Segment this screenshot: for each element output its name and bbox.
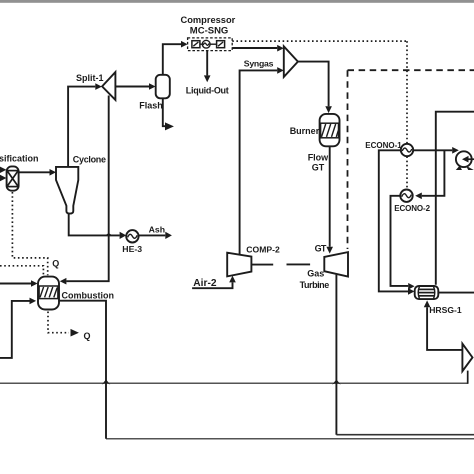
compressor MC-SNG multistage block [188,38,233,51]
heat exchanger ECONO-1 [401,144,413,156]
wire: MC-SNG bottom to Liquid-Out [206,51,208,76]
turbine GT [324,252,348,277]
svg-text:HE-3: HE-3 [122,244,142,254]
wire: dashed battery-limit boundary top [348,69,474,71]
cyclone separator [56,167,78,214]
svg-text:HRSG-1: HRSG-1 [429,305,462,315]
wire: dotted work stream MC-SNG to ECONO (horizontal) [232,40,407,42]
svg-text:sification: sification [0,153,39,163]
wire: ECONO-1 outlet left and down to HRSG [379,150,408,291]
wire: gasifier to cyclone [19,171,50,173]
junction chevron at flue header [332,380,341,385]
wire: combustion flue out right and down [59,301,106,439]
wire: dashed battery-limit boundary left [347,70,349,249]
wire: feed arrow 2 into gasifier [0,175,6,181]
svg-text:Syngas: Syngas [244,59,274,69]
splitter Split-1 [102,72,115,100]
compressor COMP-2 [227,253,251,277]
wire: dotted work stream vertical down to ECONO-1 [406,41,408,144]
svg-text:Flash: Flash [139,101,163,111]
svg-text:Liquid-Out: Liquid-Out [186,85,229,95]
wire: Burner to gas turbine [329,146,331,247]
svg-text:Q: Q [84,331,91,341]
wire: HRSG-1 gas outlet to right edge [438,292,474,294]
svg-text:GT: GT [312,163,325,173]
svg-text:Turbine: Turbine [300,280,330,290]
burner vessel Burner [320,114,340,146]
arrowhead Q out [71,329,79,337]
pump P-1 [456,166,462,170]
wire: flue riser into HRSG-1 bottom [427,307,462,350]
wire: cyclone bottom to HE-3 [69,214,120,236]
svg-text:Compressor: Compressor [181,15,236,25]
wire: dotted Q gasifier to combustion [12,192,47,275]
wire: combustion exhaust bottom line to right edge [106,438,474,440]
svg-text:Combustion: Combustion [62,290,115,300]
wire: stream from left edge into combustion [0,283,31,285]
wire: HE-3 to Ash out [139,234,166,236]
svg-text:ECONO-2: ECONO-2 [394,204,430,213]
svg-text:Flow: Flow [308,153,329,163]
svg-text:MC-SNG: MC-SNG [190,26,229,37]
wire: Flash top to compressor MC-SNG [163,44,181,75]
svg-text:Cyclone: Cyclone [73,154,106,164]
heat exchanger HE-3 [126,230,138,242]
wire: ECONO-1 to pump [413,149,452,151]
junction chevron at flue header left [102,380,111,385]
wire: long flue-gas header line [0,382,468,384]
wire: cyclone top to Split-1 [68,87,95,167]
wire: shaft COMP-2 to GT segment 1 [251,264,274,266]
wire hop over HE-3 line [105,234,112,236]
wire: Flash bottom product [163,98,165,126]
svg-text:Burner: Burner [290,126,320,136]
flash drum Flash [156,75,170,99]
wire: mixer to Burner [298,62,329,107]
wire: compressed air from COMP-2 up to mixer [240,70,278,255]
svg-text:Split-1: Split-1 [76,73,104,83]
svg-text:Q: Q [52,259,59,269]
wire: steam drum line corner to right edge [436,112,474,285]
svg-text:COMP-2: COMP-2 [246,245,280,255]
wire: stream from left edge up into combustion [0,301,30,358]
heat exchanger HRSG-1 [415,286,439,299]
top grey border band [0,0,474,3]
mixer junction triangle [284,46,298,77]
wire: feed arrow 1 into gasifier [0,167,6,173]
svg-text:GT: GT [315,244,327,254]
combustor vessel Combustion [38,277,59,310]
wire: branch down to ECONO-2 [422,150,445,196]
wire: ECONO-2 outlet left and down to HRSG [391,196,409,286]
wire: dotted Q out of combustion bottom [48,312,69,333]
wire: GT exhaust down [335,275,337,435]
wire: Air-2 feed [192,282,232,288]
heat exchanger ECONO-2 [400,190,412,202]
reactor gasifier vessel [7,166,19,190]
svg-text:Ash: Ash [149,225,165,235]
svg-text:Air-2: Air-2 [193,278,217,289]
wire: Split-1 to Flash [115,86,149,88]
svg-text:ECONO-1: ECONO-1 [365,141,402,150]
wire: MC-SNG syngas out to mixer [232,47,277,49]
svg-text:Gas: Gas [307,269,324,279]
wire: dotted between ECONO-1 and ECONO-2 [406,156,408,189]
splitter at right edge [462,344,472,372]
wire: dotted Q from left edge to combustion [0,266,43,275]
wire: shaft segment 2 [287,263,311,265]
wire: Split-1 bottom branch down to combustion [66,96,108,282]
wire: GT exhaust bottom line to right edge [336,434,474,436]
